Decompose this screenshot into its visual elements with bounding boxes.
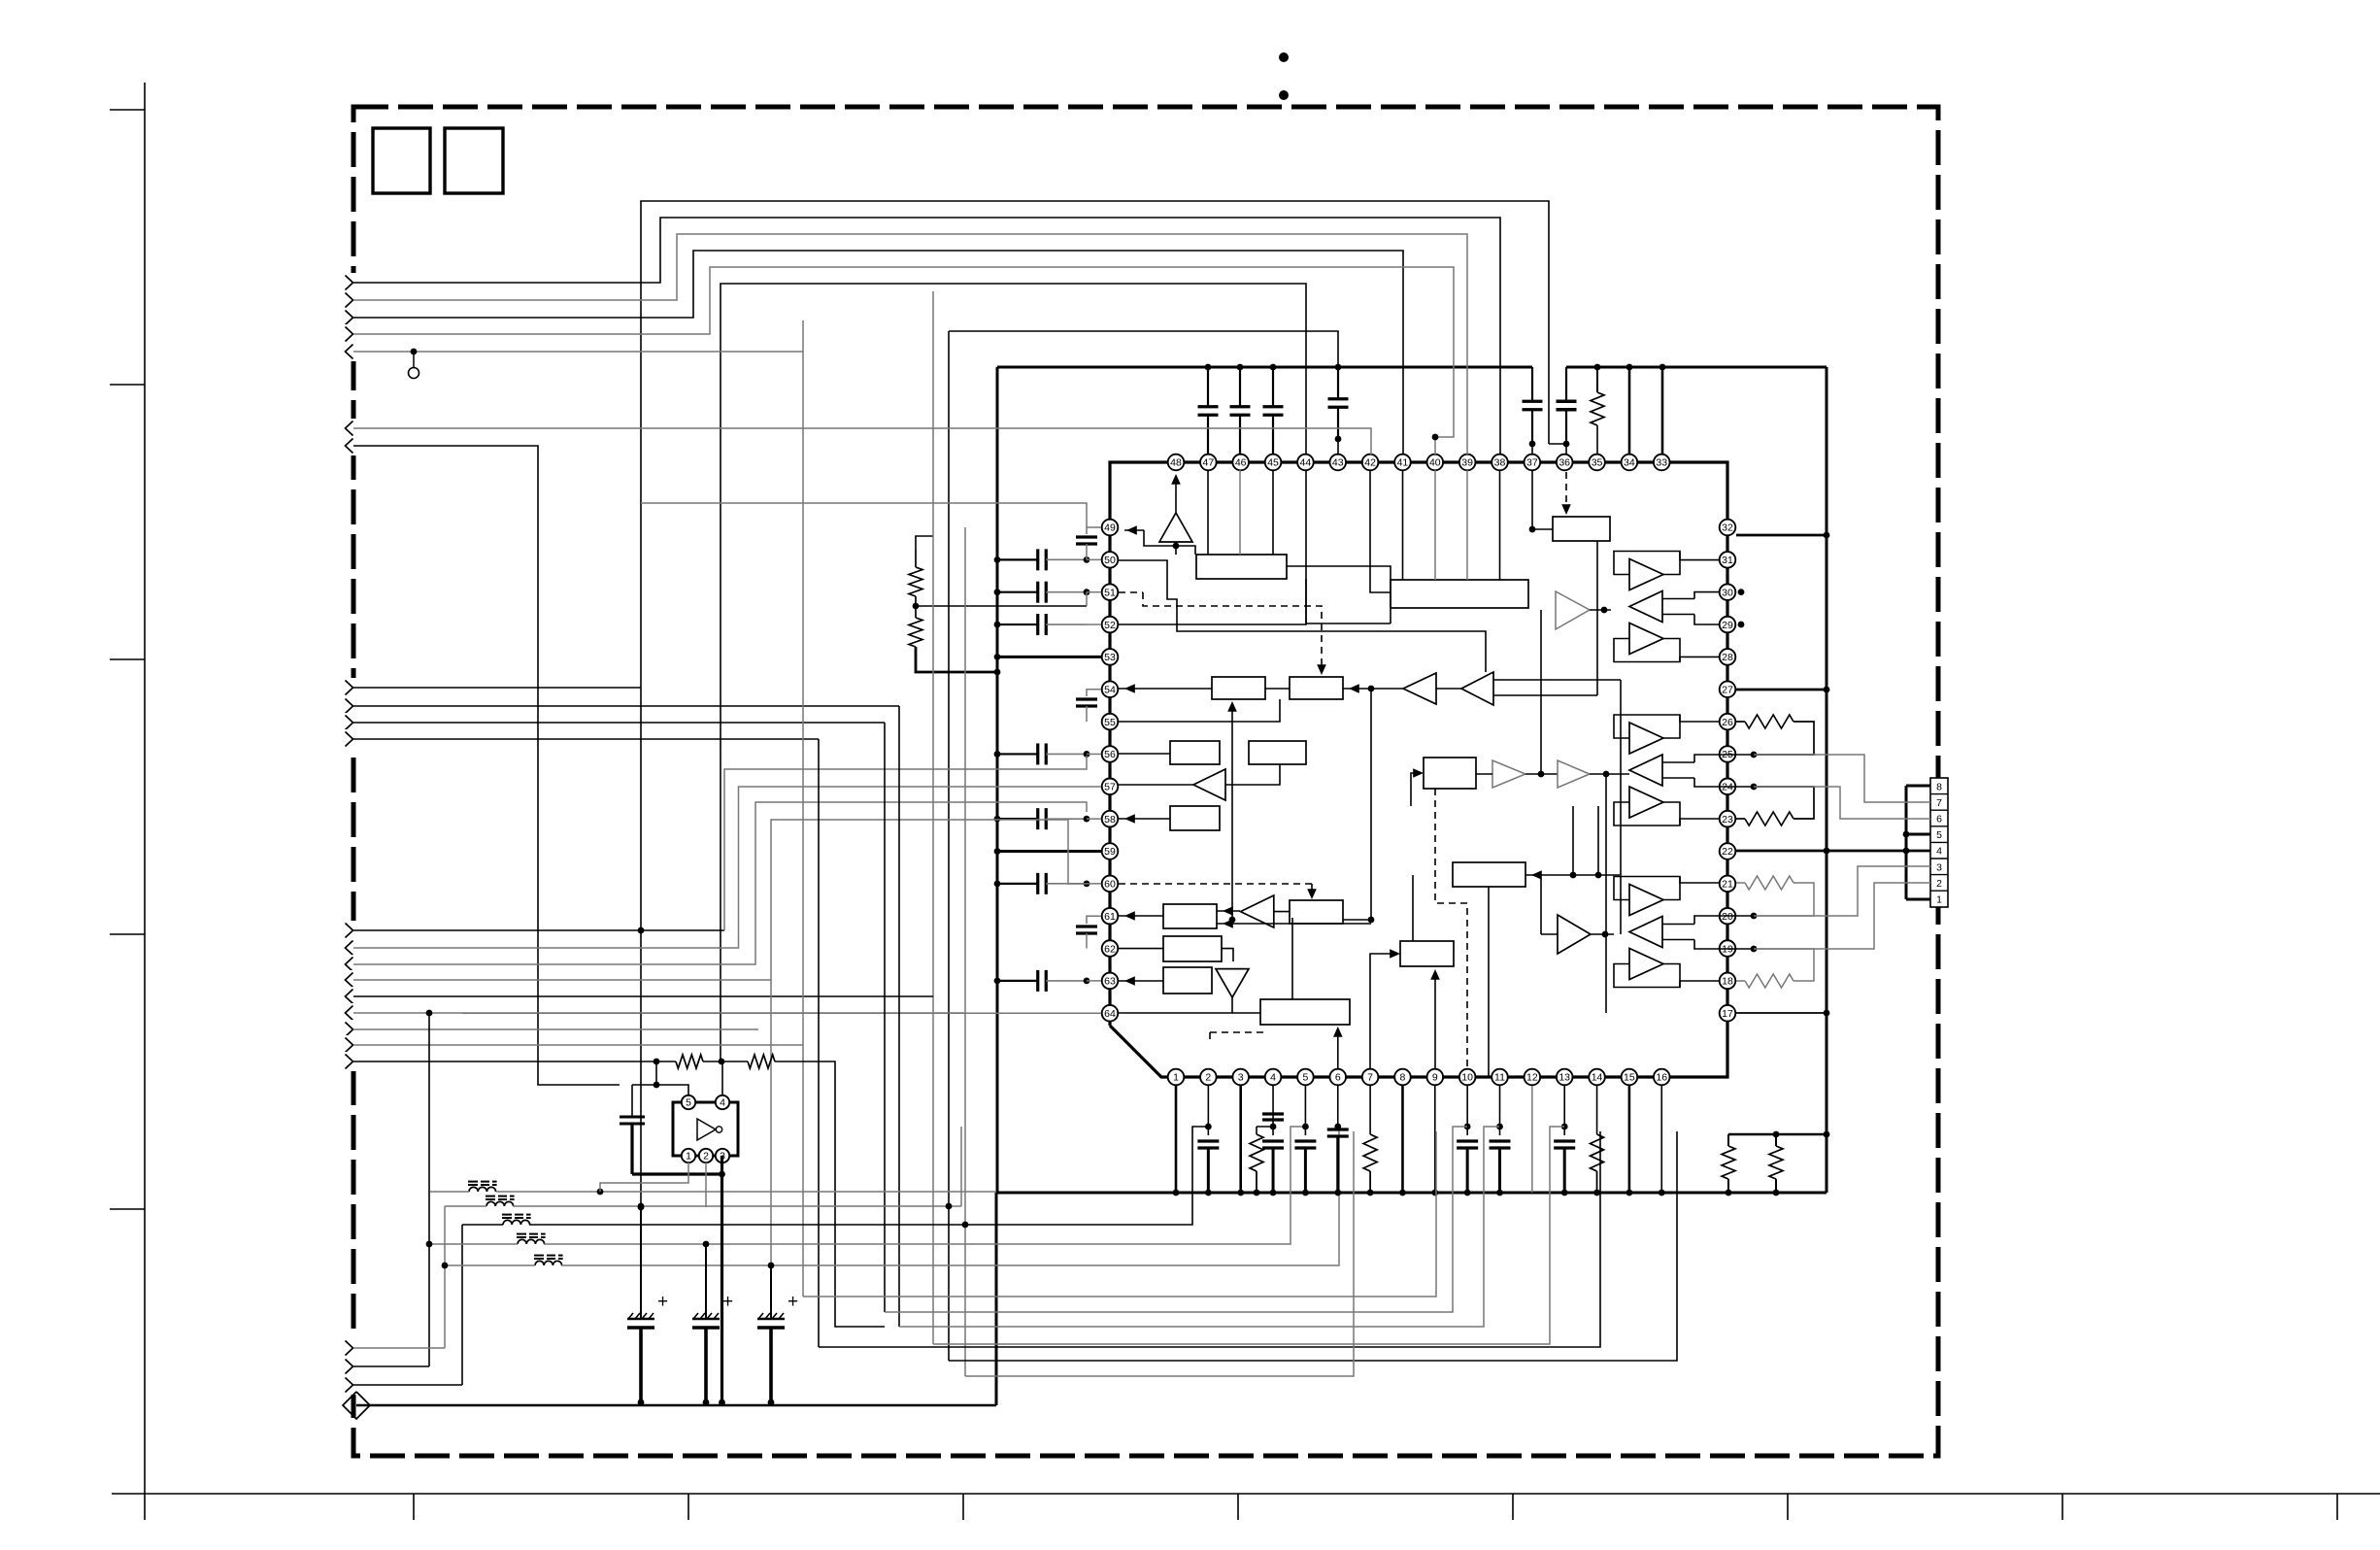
X1 pin 4 [716,1095,729,1109]
resistor right of pin 18 [1736,980,1745,982]
U1 pin 43 [1329,455,1346,471]
page frame left ruler [144,83,146,1520]
thick node wire [632,1172,722,1175]
chevron y1009 net [353,820,1087,980]
connector arrow left y1026 [344,987,360,1006]
box M left arrow [1411,773,1418,806]
pin 12 wire [1531,1086,1533,1193]
U1 pin 31 [1720,552,1736,568]
dashed to box J [1209,1032,1211,1041]
svg-text:61: 61 [1104,911,1116,923]
U1 pin 48 [1168,455,1185,471]
svg-text:+: + [788,1292,798,1312]
block box M [1424,758,1476,789]
gray tri out [1590,609,1611,611]
resistor above pin 34 [1596,367,1598,392]
U1 pin 60 [1102,876,1119,893]
svg-text:2: 2 [1205,1072,1211,1084]
board outline (dashed) [353,107,1938,1456]
U1 pin 62 [1102,940,1119,957]
svg-text:58: 58 [1104,814,1116,826]
pin 63 wire [1119,980,1163,982]
U1 pin 49 [1102,520,1119,536]
svg-text:14: 14 [1592,1072,1603,1084]
svg-text:4: 4 [720,1097,725,1109]
svg-text:1: 1 [686,1151,691,1162]
pin 53 supply wire [997,656,1101,658]
choke FL3 [503,1220,530,1225]
pin 17 net [1736,1012,1827,1014]
capacitor between pins 61-62 [1087,916,1101,924]
capacitor below pin 4 [1272,1086,1274,1127]
cascade out to D2 [1343,688,1403,690]
connector arrow right y744 [344,713,360,732]
connector arrow right y327 [344,308,360,327]
cluster1 wires [1680,560,1736,564]
vertical 1654 down [1605,774,1607,1013]
svg-text:50: 50 [1104,555,1116,566]
resistor tap wire [916,605,1087,607]
U1 pin 36 [1557,455,1573,471]
capacitor at pin 63 [997,980,1038,982]
resistor right of pin 23 [1736,818,1745,820]
IC U1 outline [1110,462,1727,1077]
U1 pin 27 [1720,681,1736,697]
vertical 926 [898,706,900,1327]
resistor right of pin 21 [1736,882,1745,884]
svg-text:54: 54 [1104,684,1116,695]
chevron y1060 net [353,1028,758,1030]
svg-text:22: 22 [1722,846,1733,858]
ruler tick [110,1208,145,1210]
U1 pin 19 [1720,940,1736,957]
capacitor at pin 50 [997,558,1038,560]
connector arrow left y1043 [344,1003,360,1023]
vertical 827 [802,320,804,1297]
resistor right of pin 26 [1736,721,1745,723]
vertical 1412 [1370,689,1372,920]
net L3 chevron-y309 to pin39 [353,234,1467,455]
box I drop [1225,764,1280,785]
svg-text:+: + [722,1292,733,1312]
U1 pin 14 [1589,1069,1605,1086]
connector arrow left y1009 [344,970,360,990]
dashed mid route [1435,789,1467,1068]
svg-text:1: 1 [1173,1072,1179,1084]
svg-text:38: 38 [1494,457,1506,469]
svg-text:40: 40 [1429,457,1441,469]
U1 pin 4 [1265,1069,1282,1086]
box D1-D2 link [1265,688,1290,690]
U1 pin 26 [1720,714,1736,730]
net L1 (pin36 route) [641,201,1549,1207]
svg-text:11: 11 [1494,1072,1505,1084]
chevron y362 net [353,351,803,353]
capacitor below pin 5 [1304,1086,1306,1127]
net L4 chevron-y327 to pin41 [353,251,1403,455]
pin 39 inner wire [1466,470,1468,580]
bus to diamond [356,1404,996,1407]
U1 pin 53 [1102,649,1119,665]
svg-text:4: 4 [1270,1072,1276,1084]
resistor FB2 [748,1055,775,1068]
U1 pin 23 [1720,811,1736,827]
svg-text:8: 8 [1400,1072,1406,1084]
chevron y1407 net [353,1365,429,1367]
chevron y958 net [353,929,724,931]
pin 47 inner wire [1207,470,1209,555]
svg-text:35: 35 [1592,457,1603,469]
svg-text:62: 62 [1104,943,1116,955]
ruler tick [110,109,145,111]
block box D2 [1290,677,1343,699]
capacitor above pin 45 [1272,367,1274,407]
U1 pin 33 [1654,455,1670,471]
svg-text:53: 53 [1104,652,1116,663]
tri to box G [1274,911,1290,913]
stub pin 33 [1661,367,1664,455]
U1 pin 25 [1720,746,1736,762]
block box A [1391,580,1528,608]
resistor below pin 14 [1596,1086,1598,1134]
block box B [1553,517,1610,541]
block box G [1290,900,1343,924]
U1 pin 1 [1168,1069,1185,1086]
vertical 794 lower [770,980,772,1264]
ruler tick [413,1494,415,1520]
vertical 843 [818,739,820,1347]
pin 46 inner wire [1239,470,1241,555]
pin 41 inner wire [1402,470,1404,580]
connector arrow left y993 [344,955,360,974]
block box J [1260,999,1350,1025]
connector arrow left y976 [344,938,360,958]
U1 pin 63 [1102,973,1119,990]
svg-text:37: 37 [1526,457,1538,469]
electrolytic C1 [640,1207,642,1319]
svg-text:5: 5 [1936,829,1942,841]
svg-text:7: 7 [1936,797,1942,809]
block box K [1453,862,1525,887]
svg-text:23: 23 [1722,814,1733,826]
svg-text:47: 47 [1203,457,1215,469]
amp gray tri up [1556,591,1590,629]
pin 8 ground wire [1401,1086,1404,1193]
pin 42 inner wire [1370,470,1391,592]
U1 pin 59 [1102,843,1119,859]
resistor below pin 7 [1369,1086,1371,1134]
svg-text:8: 8 [1936,781,1942,792]
connector arrow left y441 [344,419,360,438]
amp triangle below pin 48 [1159,513,1192,542]
ruler tick [110,658,145,660]
net L6 to pin44 [721,284,1306,1061]
amp triangle pin 61 [1241,895,1274,927]
ruler tick [1237,1494,1239,1520]
block box L [1400,941,1454,966]
U1 pin 57 [1102,779,1119,795]
net L5 chevron-y344 to pin40 [353,267,1454,455]
chevron y761 net [353,738,819,740]
X1 pin 3 [716,1149,729,1162]
buffer link [1525,773,1558,775]
cluster2 wires [1680,715,1736,722]
capacitor below pin 2 [1207,1086,1209,1127]
svg-text:55: 55 [1104,717,1116,728]
chevron y1388 net [353,1347,445,1349]
pin 19 wire to connector row2 [1754,883,1930,949]
pin 16 ground wire [1660,1086,1662,1193]
pin 62 inner wire [1119,948,1163,950]
staircase net f [949,1131,1677,1361]
capacitor at pin 52 [997,623,1038,625]
vertical 1669 [1620,680,1622,934]
pin 37 inner stub [1531,470,1533,529]
chevron y1426 net [353,1384,462,1386]
U1 pin 12 [1525,1069,1541,1086]
svg-text:5: 5 [1302,1072,1308,1084]
U1 pin 7 [1362,1069,1379,1086]
junction [1529,441,1536,448]
U1 pin 39 [1459,455,1476,471]
svg-text:20: 20 [1722,911,1733,923]
staircase net d [899,1127,1499,1327]
page frame bottom ruler [112,1493,2380,1495]
svg-text:59: 59 [1104,846,1116,858]
pin 20 wire to connector row3 [1754,866,1930,916]
capacitor between pins 49-50 [1087,527,1101,534]
connector CN1 [1930,778,1948,907]
U1 pin 45 [1265,455,1282,471]
U1 pin 42 [1362,455,1379,471]
svg-text:28: 28 [1722,652,1733,663]
svg-text:60: 60 [1104,879,1116,891]
block box G3 [1163,967,1212,994]
X1 pin 2 [699,1149,713,1162]
svg-text:9: 9 [1432,1072,1438,1084]
svg-text:45: 45 [1267,457,1279,469]
vertical 911 [884,723,886,1312]
capacitor between pins 54-55 [1087,690,1101,696]
vertical 442 [428,1013,430,1366]
IC X1 body [673,1102,738,1156]
connector row5 wire [1906,833,1930,836]
svg-text:12: 12 [1526,1072,1538,1084]
net L2 chevron-y291 to pin38 [353,218,1500,455]
svg-text:2: 2 [1936,878,1942,890]
reference dot [1279,90,1289,100]
dashed pin51 route [1119,591,1143,593]
box J bottom arrow [1337,1029,1339,1068]
svg-text:15: 15 [1624,1072,1635,1084]
U1 pin 6 [1329,1069,1346,1086]
svg-text:2: 2 [703,1151,709,1162]
ruler tick [2336,1494,2338,1520]
chevron y993 net [353,802,1087,964]
capacitor above pin 36 [1565,367,1567,401]
wire pin36 [1565,444,1567,455]
choke FL2 [486,1201,514,1206]
U1 pin 41 [1394,455,1411,471]
svg-text:3: 3 [1936,861,1942,873]
chevron y441 long wire [353,428,1371,455]
pin 27 net [1736,689,1827,691]
svg-text:17: 17 [1722,1008,1733,1020]
block box D1 [1212,677,1265,699]
pin 38 inner wire [1499,470,1501,580]
connector block square [373,128,430,193]
box B bottom wire [1596,541,1598,695]
junction [719,1059,725,1065]
box L bottom arrow [1434,972,1436,1068]
U1 pin 15 [1622,1069,1638,1086]
amp cluster pins 26-23 [1629,723,1663,754]
pin 9 wire [1434,1086,1436,1193]
junction [1751,946,1758,953]
U1 pin 55 [1102,714,1119,730]
U1 pin 10 [1459,1069,1476,1086]
supply bus (top) [997,366,1532,369]
wire [775,1061,885,1327]
buffer into cluster3 [1558,915,1591,954]
U1 pin 61 [1102,908,1119,925]
U1 pin 44 [1297,455,1314,471]
block box H [1170,741,1220,764]
vertical 476 [461,1225,463,1385]
junction [1751,752,1758,758]
amp cluster pins 21-18 [1629,885,1663,916]
svg-text:52: 52 [1104,620,1116,631]
X1 pin2 wire [705,1162,707,1207]
wire [1531,444,1533,455]
test point stub [413,352,415,367]
svg-text:64: 64 [1104,1008,1116,1020]
connector arrow right y1093 [344,1052,360,1071]
pin 32 net [1736,534,1827,537]
chevron y1076 net [353,1044,803,1046]
svg-text:39: 39 [1461,457,1473,469]
junction [1563,441,1570,448]
ground bus [996,1192,1827,1195]
block box F [1163,904,1217,928]
staircase net c [835,1326,885,1328]
chevron y708 net [353,687,641,689]
svg-text:41: 41 [1397,457,1409,469]
U1 pin 54 [1102,681,1119,697]
vertical 458 [444,1206,446,1348]
svg-text:56: 56 [1104,749,1116,760]
wire node [1549,443,1566,445]
svg-text:31: 31 [1722,555,1733,566]
capacitor at pin 58 [997,818,1038,820]
connector row8 wire [1906,785,1930,788]
U1 pin 64 [1102,1005,1119,1022]
svg-text:1: 1 [1936,894,1942,906]
box G right wire [1343,919,1371,921]
U1 pin 37 [1525,455,1541,471]
connector arrow right y1426 [344,1375,360,1395]
junction [1751,913,1758,920]
svg-text:21: 21 [1722,879,1733,891]
block box J2 [1170,806,1220,830]
staircase net e [933,1127,1564,1344]
U1 pin 24 [1720,779,1736,795]
svg-text:16: 16 [1656,1072,1667,1084]
box J left wire [1232,1012,1260,1014]
U1 pin 3 [1232,1069,1249,1086]
svg-text:63: 63 [1104,976,1116,988]
pin 24 wire to connector row6 [1754,787,1930,819]
U1 pin 17 [1720,1005,1736,1022]
connector arrow right y1060 [344,1020,360,1039]
svg-text:13: 13 [1559,1072,1570,1084]
X1 pin1 wire [600,1162,688,1192]
U1 pin 22 [1720,843,1736,859]
svg-text:6: 6 [1936,814,1942,826]
U1 pin 52 [1102,617,1119,633]
ruler tick [2062,1494,2063,1520]
ground bus drop left [995,1193,998,1405]
resistor R bottom right 2 [1775,1134,1777,1146]
pin 40 inner wire [1434,470,1436,580]
svg-text:3: 3 [1238,1072,1244,1084]
box G2 right step [1222,949,1233,961]
pin 61 wire [1119,915,1163,917]
svg-text:27: 27 [1722,684,1733,695]
svg-text:32: 32 [1722,522,1733,534]
pin 59 supply wire [997,850,1101,853]
electrolytic C3 [770,1264,772,1319]
pin 55 inner wire [1119,699,1280,722]
U1 pin 11 [1492,1069,1508,1086]
capacitor at pin 56 [997,753,1038,755]
pin 50 inner wire [1119,560,1486,672]
U1 pin 28 [1720,649,1736,665]
ruler tick [1512,1494,1514,1520]
capacitor at pin 51 [997,591,1038,593]
vertical 977 [948,331,950,1361]
amp triangle pin 57 [1193,769,1225,800]
svg-text:57: 57 [1104,782,1116,793]
pin 3 ground wire [1239,1086,1242,1193]
capacitor C4 [631,1085,633,1117]
U1 pin 35 [1589,455,1605,471]
svg-text:48: 48 [1170,457,1182,469]
supply bus (top right) [1566,366,1827,369]
pin 64 long wire [462,1012,1101,1014]
capacitor above pin 46 [1239,367,1241,407]
connector arrow right y1076 [344,1035,360,1055]
wire center risers [1572,806,1574,875]
wire y518 to pin49 area [641,503,1087,527]
resistor below pin 3-4 [1256,1127,1257,1134]
svg-text:34: 34 [1624,457,1635,469]
svg-text:29: 29 [1722,620,1733,631]
buffer tri 2 [1558,760,1590,788]
pin 64 inner wire [1119,997,1232,1013]
X1 buffer [697,1119,716,1140]
cascade inputs [1493,679,1621,681]
connector arrow right y708 [344,678,360,697]
svg-text:26: 26 [1722,717,1733,728]
choke FL1 [469,1187,496,1192]
U1 pin 18 [1720,973,1736,990]
X1 pin3 wire [721,1156,723,1405]
choke FL4 [518,1239,545,1244]
U1 pin 8 [1394,1069,1411,1086]
chevron y1043 net [353,1012,965,1014]
chevron y459 net [353,446,620,1085]
